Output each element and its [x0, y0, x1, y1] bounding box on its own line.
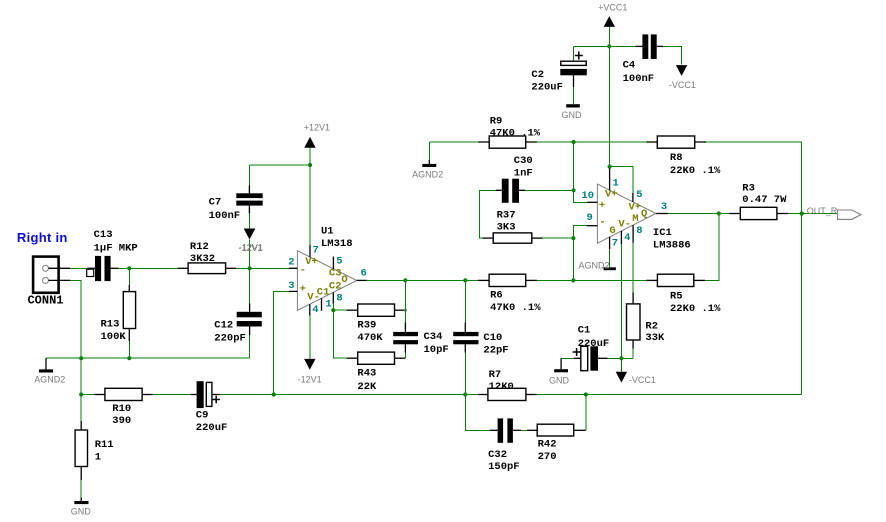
- capacitor C32: [488, 418, 521, 473]
- svg-text:220uF: 220uF: [196, 422, 228, 434]
- svg-text:LM318: LM318: [321, 238, 353, 250]
- resistor R39: [333, 304, 405, 344]
- svg-text:M: M: [632, 213, 638, 225]
- svg-text:100nF: 100nF: [623, 73, 655, 85]
- node AGND row / CONN branch: [79, 356, 83, 360]
- node output/R8 junction: [800, 211, 804, 215]
- svg-text:R8: R8: [670, 152, 683, 164]
- wire R3 to OUT_R: [788, 213, 838, 215]
- port OUT_R: [838, 210, 862, 219]
- svg-text:10pF: 10pF: [424, 344, 449, 356]
- op-amp IC1 LM3886: [597, 184, 690, 251]
- svg-text:390: 390: [112, 415, 131, 427]
- wire comp vertical to output: [404, 280, 406, 322]
- node output/comp junction: [403, 278, 407, 282]
- svg-text:C7: C7: [209, 197, 222, 209]
- svg-text:4: 4: [312, 304, 318, 316]
- svg-text:3: 3: [661, 201, 667, 213]
- power -12V1 top of C12 node: [238, 229, 262, 269]
- svg-text:8: 8: [336, 293, 342, 305]
- svg-text:V+: V+: [305, 256, 318, 268]
- svg-text:-12V1: -12V1: [239, 243, 263, 253]
- label OUT_R: [807, 206, 838, 216]
- wire C12 top lead: [249, 268, 251, 312]
- svg-text:7: 7: [313, 244, 319, 256]
- op-amp U1 LM318: [297, 226, 356, 311]
- capacitor C1: [561, 325, 621, 371]
- svg-text:100nF: 100nF: [209, 210, 241, 222]
- wire R6 to R5: [537, 279, 646, 281]
- svg-text:C34: C34: [424, 331, 443, 343]
- svg-text:+12V1: +12V1: [304, 122, 330, 132]
- svg-text:C12: C12: [214, 319, 233, 331]
- svg-text:22pF: 22pF: [483, 344, 508, 356]
- wire R2/C1/-VCC1 row: [621, 357, 633, 359]
- IC1 pin 7 lead: [610, 237, 618, 250]
- svg-text:Q: Q: [641, 208, 647, 220]
- svg-text:C3: C3: [329, 267, 342, 279]
- wire IC1 pin8 down to R2: [632, 243, 634, 293]
- node R9/R8/C30 junction: [572, 140, 576, 144]
- svg-text:V-: V-: [618, 218, 631, 230]
- U1 pin 5 stub: [333, 255, 342, 269]
- resistor R13: [101, 292, 136, 344]
- wire C13 to R12: [119, 267, 178, 269]
- svg-text:AGND2: AGND2: [579, 260, 610, 270]
- label Right in: [17, 230, 68, 245]
- capacitor C13: [87, 229, 138, 281]
- svg-text:R12: R12: [190, 241, 209, 253]
- node +VCC1 junction: [607, 44, 611, 48]
- svg-text:R11: R11: [95, 439, 114, 451]
- svg-text:1: 1: [613, 177, 619, 189]
- IC1 pin 3 output lead: [656, 201, 668, 214]
- svg-text:R43: R43: [357, 367, 376, 379]
- resistor R7: [478, 369, 537, 400]
- node C30/pin10 junction: [572, 188, 576, 192]
- svg-text:-: -: [599, 217, 605, 229]
- svg-text:22K0 .1%: 22K0 .1%: [670, 303, 721, 315]
- wire IC1 pin4 down: [620, 244, 622, 358]
- resistor R3: [730, 182, 789, 219]
- svg-text:220pF: 220pF: [214, 332, 246, 344]
- wire C30 to vertical: [525, 189, 574, 191]
- svg-text:10: 10: [581, 190, 594, 202]
- U1 pin 3 lead: [288, 280, 297, 292]
- node +12V1 junction: [308, 163, 312, 167]
- svg-text:Right in: Right in: [17, 230, 68, 245]
- svg-text:GND: GND: [549, 375, 570, 385]
- svg-text:2: 2: [288, 256, 294, 268]
- ground GND under C2: [562, 104, 583, 120]
- svg-text:C4: C4: [623, 60, 636, 72]
- svg-text:47K0 .1%: 47K0 .1%: [490, 127, 541, 139]
- svg-text:R37: R37: [497, 209, 516, 221]
- svg-text:12K0: 12K0: [489, 381, 514, 393]
- svg-text:R7: R7: [489, 369, 502, 381]
- svg-text:47K0 .1%: 47K0 .1%: [490, 302, 541, 314]
- ground AGND2 under R9: [412, 142, 443, 180]
- wire IC1 output to R3: [668, 213, 730, 215]
- svg-text:220uF: 220uF: [578, 338, 610, 350]
- wire U1 output to R6: [367, 279, 478, 281]
- svg-text:7: 7: [612, 238, 618, 250]
- capacitor C12: [214, 312, 261, 345]
- svg-text:-12V1: -12V1: [298, 375, 322, 385]
- svg-text:R42: R42: [538, 439, 557, 451]
- svg-text:R3: R3: [742, 182, 755, 194]
- resistor R9: [429, 116, 541, 149]
- ground GND under R11: [71, 498, 92, 517]
- node R12/C12 junction: [248, 266, 252, 270]
- power -12V1 under C7: [239, 214, 263, 253]
- IC1 pin 4 lead: [621, 231, 630, 244]
- capacitor C7: [209, 186, 263, 223]
- wire R42 up to junction: [585, 395, 587, 431]
- svg-text:C2: C2: [329, 280, 342, 292]
- resistor R2: [627, 293, 666, 359]
- resistor R5: [646, 274, 721, 315]
- svg-text:-: -: [300, 265, 306, 277]
- svg-text:5: 5: [336, 255, 342, 267]
- wire R37 node down to R6 node: [572, 238, 574, 280]
- wire +VCC1 down to IC1 pin1: [609, 46, 611, 166]
- svg-text:C1: C1: [578, 325, 591, 337]
- svg-text:R10: R10: [112, 403, 131, 415]
- U1 pin 1 stub: [322, 298, 332, 311]
- svg-text:470K: 470K: [357, 332, 383, 344]
- U1 pin 7 lead: [310, 244, 319, 257]
- svg-text:6: 6: [361, 268, 367, 280]
- svg-text:3: 3: [288, 280, 294, 292]
- wire +12V1 to C7: [249, 165, 310, 186]
- svg-text:G: G: [609, 225, 615, 237]
- svg-text:R39: R39: [357, 319, 376, 331]
- capacitor C30: [496, 155, 533, 203]
- power -VCC1 right of C4: [663, 46, 696, 90]
- wire R9 node down to pin10: [574, 142, 588, 202]
- resistor R6: [478, 274, 541, 314]
- wire AGND2 row: [46, 357, 250, 359]
- svg-text:LM3886: LM3886: [653, 239, 691, 251]
- svg-text:+VCC1: +VCC1: [598, 3, 627, 13]
- ground GND at C1: [549, 358, 570, 385]
- wire U1 pin8 to R39: [332, 304, 334, 310]
- resistor R43: [347, 352, 406, 393]
- svg-text:CONN1: CONN1: [27, 293, 63, 307]
- U1 inside labels: [300, 256, 348, 304]
- resistor R12: [178, 241, 237, 274]
- power +12V1: [304, 122, 330, 165]
- svg-text:GND: GND: [562, 110, 583, 120]
- wire pin1 node to pin5: [610, 167, 633, 193]
- U1 pin 2 lead: [288, 256, 297, 268]
- svg-text:1: 1: [95, 452, 101, 464]
- wire R12 to U1 pin2: [236, 267, 289, 269]
- svg-text:33K: 33K: [645, 332, 665, 344]
- IC1 pin 5 lead: [633, 189, 643, 202]
- svg-text:C32: C32: [488, 449, 507, 461]
- svg-text:V+: V+: [605, 189, 618, 201]
- wire IC1 pin9 to R37 node: [573, 226, 586, 238]
- resistor R11: [75, 395, 114, 498]
- U1 pin 8 lead: [333, 292, 342, 304]
- wire pin8 node down to R43: [333, 310, 346, 358]
- connector CONN1: [27, 257, 70, 308]
- svg-text:C1: C1: [317, 287, 330, 299]
- svg-text:V+: V+: [629, 202, 642, 214]
- capacitor C10: [453, 280, 508, 394]
- svg-text:R6: R6: [490, 290, 503, 302]
- node R6/inverting junction: [571, 278, 575, 282]
- node C13/R13 junction: [127, 266, 131, 270]
- IC1 pin 8 lead: [633, 225, 642, 243]
- capacitor C2: [531, 52, 586, 105]
- svg-text:R5: R5: [670, 290, 683, 302]
- svg-text:C13: C13: [94, 229, 113, 241]
- wire C32 branch: [465, 395, 490, 431]
- svg-text:0.47 7W: 0.47 7W: [742, 194, 787, 206]
- svg-text:3K32: 3K32: [190, 253, 215, 265]
- node C9/pin3 junction: [272, 392, 276, 396]
- wire C32 to R42: [521, 429, 527, 431]
- U1 pin 4 lead: [310, 304, 319, 316]
- wire C9 to pin3 node: [220, 394, 274, 396]
- svg-text:R9: R9: [490, 116, 503, 128]
- wire CONN1 pin1 to C13: [70, 267, 87, 269]
- svg-text:AGND2: AGND2: [34, 374, 65, 384]
- U1 pin 6 output lead: [357, 268, 367, 281]
- capacitor C4: [609, 34, 663, 84]
- node pin8/R39/R43 junction: [331, 308, 335, 312]
- svg-text:R13: R13: [101, 318, 120, 330]
- svg-text:1: 1: [325, 299, 331, 311]
- svg-text:-VCC1: -VCC1: [669, 80, 696, 90]
- svg-text:OUT_R: OUT_R: [807, 206, 838, 216]
- node R39/C34 tap: [404, 309, 407, 312]
- svg-text:-VCC1: -VCC1: [629, 375, 656, 385]
- wire R13 top lead: [128, 268, 130, 291]
- svg-text:100K: 100K: [101, 331, 127, 343]
- wire U1 pin3 to feedback node: [274, 291, 289, 394]
- ground AGND2 left: [34, 358, 65, 384]
- svg-text:+: +: [599, 200, 605, 212]
- wire R8 right down to output and feedback: [706, 142, 802, 395]
- ground AGND2 under IC1 pin7: [579, 249, 616, 270]
- svg-text:220uF: 220uF: [531, 81, 563, 93]
- resistor R37: [483, 209, 574, 243]
- resistor R42: [527, 424, 586, 463]
- wire R37 left up to C30: [479, 190, 495, 238]
- wire R10 to C9: [153, 394, 191, 396]
- svg-text:150pF: 150pF: [488, 461, 520, 473]
- wire R9 to R8: [537, 141, 646, 143]
- svg-text:IC1: IC1: [653, 227, 672, 239]
- svg-text:C2: C2: [531, 69, 544, 81]
- power -VCC1 under pin4: [616, 358, 656, 385]
- svg-text:9: 9: [586, 212, 592, 224]
- wire R5 to output node: [705, 214, 719, 281]
- svg-text:C30: C30: [514, 155, 533, 167]
- svg-text:1µF MKP: 1µF MKP: [94, 243, 138, 255]
- svg-text:C9: C9: [196, 410, 209, 422]
- svg-text:1nF: 1nF: [514, 167, 533, 179]
- node feedback/R10/R11 junction: [79, 392, 83, 396]
- resistor R8: [646, 136, 721, 177]
- wire CONN1 pin2 down: [70, 280, 81, 394]
- power +VCC1: [598, 3, 627, 47]
- svg-text:22K0 .1%: 22K0 .1%: [670, 165, 721, 177]
- node R3/R8/feedback junction: [800, 211, 804, 215]
- node C10/R7/C32 junction: [463, 392, 467, 396]
- wire feedback bottom row: [274, 394, 478, 396]
- svg-text:AGND2: AGND2: [412, 170, 443, 180]
- svg-text:GND: GND: [71, 507, 92, 517]
- node AGND row / R13: [127, 356, 131, 360]
- IC1 pin 10 lead: [581, 190, 597, 202]
- svg-text:5: 5: [636, 189, 642, 201]
- IC1 pin 9 lead: [586, 212, 597, 226]
- svg-text:+: +: [300, 284, 306, 296]
- wire +VCC1 to C2: [574, 46, 610, 61]
- IC1 pin 1 lead: [610, 167, 619, 191]
- capacitor C9: [191, 381, 228, 434]
- svg-text:270: 270: [538, 451, 557, 463]
- svg-text:8: 8: [636, 225, 642, 237]
- wire R13 bottom lead: [128, 329, 130, 359]
- svg-text:22K: 22K: [357, 381, 377, 393]
- wire R7 to right node: [537, 394, 586, 396]
- node R37/pin9 junction: [571, 236, 575, 240]
- svg-text:R2: R2: [645, 320, 658, 332]
- wire +12V1 to U1 pin7: [309, 165, 311, 245]
- node IC1 V+ junction: [608, 165, 612, 169]
- svg-text:U1: U1: [321, 226, 334, 238]
- wire bottom right row: [586, 394, 802, 396]
- svg-text:O: O: [341, 274, 347, 286]
- node R7/R42/output junction: [584, 392, 588, 396]
- capacitor C34: [393, 323, 449, 359]
- node output/R5 junction: [717, 211, 721, 215]
- node C1/pin4 junction: [619, 356, 623, 360]
- svg-text:4: 4: [624, 232, 630, 244]
- power -12V1 under U1 pin4: [298, 316, 322, 385]
- node output/C10 junction: [463, 278, 467, 282]
- IC1 inside labels: [599, 189, 647, 238]
- svg-text:3K3: 3K3: [497, 222, 516, 234]
- svg-text:C10: C10: [483, 332, 502, 344]
- resistor R10: [81, 388, 153, 427]
- wire C12 bottom lead: [249, 327, 251, 359]
